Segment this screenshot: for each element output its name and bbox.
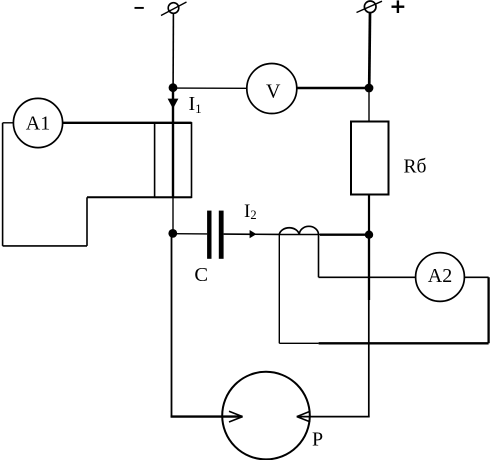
arc chamber P (circle) — [222, 372, 310, 460]
svg-text:Rб: Rб — [404, 156, 427, 177]
ammeter A2 — [416, 253, 465, 302]
electrolyzer box B — [155, 123, 192, 197]
wire: node 4 down (lower part) — [368, 300, 370, 417]
wire: node 3 to capacitor C — [173, 233, 207, 235]
wire: loop bottom horizontal thick — [319, 342, 489, 344]
capacitor C plate 2 — [219, 211, 224, 259]
coil L (two humps) — [279, 226, 318, 234]
wire: bottom horizontal run — [3, 245, 87, 247]
node 3 (junction dot) — [168, 229, 177, 238]
wire: ammeter A1 to box top edge — [63, 122, 192, 124]
node 2 (junction dot) — [365, 84, 374, 93]
wire: right loop vertical — [487, 277, 489, 343]
resistor Rb — [351, 122, 389, 195]
wire: coil right tap down — [318, 235, 320, 278]
label minus polarity — [135, 7, 144, 9]
wire: ammeter A1 left stub — [3, 122, 14, 124]
node 1 (junction dot) — [169, 83, 178, 92]
left electrode chevron of arc P — [229, 411, 243, 422]
wire: node 1 to voltmeter V — [173, 87, 247, 89]
wire: node 3 down left side — [171, 233, 173, 417]
wire: capacitor C to coil — [224, 233, 280, 235]
svg-text:A2: A2 — [428, 265, 452, 287]
wire: bottom right horizontal to arc P — [297, 416, 370, 418]
current arrow I2 — [250, 230, 257, 238]
voltmeter V — [247, 64, 297, 114]
terminal X2 (positive supply) — [357, 1, 383, 13]
svg-text:V: V — [266, 81, 281, 103]
wire: node 2 to resistor Rb — [368, 88, 370, 122]
label plus polarity — [392, 0, 405, 13]
wire: right tap to ammeter A2 — [319, 276, 416, 278]
wire: terminal X2 to node 2 — [368, 13, 371, 88]
wire: node 1 down through electrolyzer box — [172, 88, 174, 197]
wire: voltmeter V to node 2 — [297, 87, 369, 89]
svg-text:A1: A1 — [26, 113, 50, 135]
svg-text:C: C — [194, 264, 208, 286]
wire: up to box bottom — [86, 197, 88, 246]
wire: terminal X1 to node 1 — [172, 13, 174, 87]
wire: node 4 down (upper part) — [368, 235, 370, 300]
capacitor C plate 1 — [207, 211, 211, 259]
wire: bottom left horizontal to arc P — [171, 415, 243, 417]
wire: box bottom to node 3 — [172, 197, 174, 233]
terminal X1 (negative supply) — [161, 2, 187, 16]
node 4 (junction dot) — [365, 231, 373, 239]
wire: left vertical run — [2, 123, 4, 246]
wire: box bottom edge — [87, 196, 192, 198]
ammeter A1 — [13, 98, 62, 147]
wire: loop bottom horizontal thin to left tap — [279, 342, 318, 344]
wire: ammeter A2 to right corner — [464, 276, 488, 278]
wire: coil to node 4 thick — [320, 233, 369, 235]
wire: under coil to node 4 — [280, 234, 320, 236]
wire: coil left tap down — [278, 235, 280, 344]
svg-text:P: P — [312, 428, 323, 450]
current arrow I1 — [168, 99, 179, 109]
right electrode chevron of arc P — [297, 411, 310, 422]
wire: resistor Rb to node 4 — [368, 195, 370, 236]
